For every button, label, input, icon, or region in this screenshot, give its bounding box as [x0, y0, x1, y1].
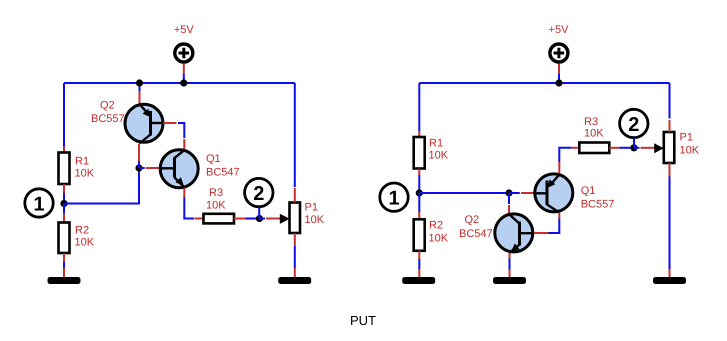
svg-text:10K: 10K	[584, 128, 604, 140]
wire node 1 to Q-junction	[64, 168, 139, 204]
svg-text:BC557: BC557	[581, 199, 615, 211]
value label P1 10K (right)	[680, 132, 700, 157]
wire rail down to P1 top	[294, 83, 296, 203]
power +5V symbol (right)	[549, 24, 570, 62]
svg-text:P1: P1	[680, 132, 693, 144]
svg-text:10K: 10K	[680, 145, 700, 157]
wire P1 bottom to ground	[294, 233, 296, 277]
label Q1 BC557 (right)	[581, 185, 615, 211]
value label P1 10K (left)	[305, 202, 325, 227]
value label R1 10K (left)	[75, 156, 95, 180]
label Q1 BC547 (left)	[206, 153, 240, 179]
svg-text:R1: R1	[75, 156, 89, 168]
svg-text:R3: R3	[584, 116, 598, 128]
svg-text:R2: R2	[75, 225, 89, 237]
svg-text:R3: R3	[209, 187, 223, 199]
wire left column from rail to R1	[63, 83, 65, 153]
wire node 1 to mid junction	[419, 192, 509, 194]
wire junction up to Q2 collector	[138, 144, 140, 168]
wire +5V to rail	[183, 64, 185, 84]
svg-text:10K: 10K	[429, 233, 449, 245]
wire R3 to node 2 junction (right)	[609, 147, 634, 149]
node 1 terminal circle (left)	[25, 189, 53, 217]
junction dot Q2 collector / Q1 base	[135, 164, 142, 171]
wire left column rail to R1 (right)	[418, 83, 420, 137]
wire R2 to ground (right)	[418, 251, 420, 277]
svg-text:1: 1	[388, 188, 399, 210]
value label R1 10K (right)	[429, 138, 449, 162]
transistor Q1 BC557 (right, PNP)	[535, 174, 573, 213]
wire node 1 to R2 (right)	[418, 193, 420, 219]
junction dot node 2 (right)	[630, 144, 637, 151]
svg-text:P1: P1	[305, 202, 318, 214]
wire node 2 circle to junction (right)	[633, 138, 635, 148]
junction dot on rail under +5V (right)	[555, 79, 562, 86]
wire +5V to rail (right)	[558, 64, 560, 84]
value label R3 10K (right)	[584, 116, 604, 140]
wire junction to Q1 base	[139, 167, 145, 169]
node 2 terminal circle (left)	[245, 178, 273, 206]
wire node 2 circle to junction	[258, 207, 260, 219]
transistor Q2 BC557 (left, PNP)	[125, 104, 165, 144]
wire junction to P1 wiper	[260, 218, 266, 220]
resistor R1 (right)	[414, 137, 425, 169]
transistor Q1 BC547 (left, NPN)	[160, 150, 198, 188]
junction dot node 1 (left)	[60, 200, 67, 207]
wire mid junction down to Q2 collector (right)	[508, 193, 510, 214]
resistor R3 (right)	[579, 143, 609, 154]
wire top rail right circuit	[419, 82, 669, 84]
ground under R2 (right)	[402, 277, 435, 284]
svg-text:Q1: Q1	[206, 153, 221, 165]
svg-text:10K: 10K	[305, 214, 325, 226]
svg-text:2: 2	[628, 114, 639, 136]
wire node 1 to R2	[63, 204, 65, 223]
transistor Q2 BC547 (right, NPN)	[495, 214, 533, 253]
wire rail down to P1 top (right)	[669, 83, 671, 132]
svg-text:BC547: BC547	[459, 228, 493, 240]
svg-text:Q1: Q1	[581, 185, 596, 197]
svg-text:Q2: Q2	[465, 214, 480, 226]
wire Q1 emitter up to R3 (right)	[559, 148, 579, 174]
svg-text:R2: R2	[429, 220, 443, 232]
svg-text:R1: R1	[429, 138, 443, 150]
svg-text:BC557: BC557	[91, 113, 125, 125]
node 1 terminal circle (right)	[380, 183, 408, 211]
wire junction to P1 wiper (right)	[634, 147, 640, 149]
potentiometer P1 wiper arrow (left)	[280, 214, 290, 224]
wire R3 to node 2 junction	[234, 218, 260, 220]
svg-text:10K: 10K	[429, 150, 449, 162]
wire Q1 collector to Q2 base (right)	[534, 213, 559, 233]
svg-text:+5V: +5V	[549, 24, 570, 36]
junction dot mid (right)	[505, 189, 512, 196]
svg-text:BC547: BC547	[206, 167, 240, 179]
svg-text:2: 2	[253, 183, 264, 205]
potentiometer P1 wiper arrow (right)	[654, 143, 664, 153]
junction dot on rail under +5V (left)	[180, 79, 187, 86]
node 2 terminal circle (right)	[620, 109, 648, 137]
wire Q2 emitter to ground (right)	[509, 253, 511, 277]
value label R2 10K (right)	[429, 220, 449, 245]
potentiometer P1 body (right)	[664, 132, 675, 163]
resistor R1 (left)	[59, 153, 70, 185]
potentiometer P1 body (left)	[290, 203, 301, 234]
resistor R3 (left)	[204, 214, 235, 224]
wire top rail left circuit	[64, 82, 295, 84]
wire P1 bottom to ground (right)	[669, 163, 671, 277]
wire rail to Q2 emitter	[139, 83, 141, 105]
svg-text:1: 1	[33, 193, 44, 215]
wire R2 to ground	[63, 253, 65, 277]
wire R1 bottom to node 1	[63, 184, 65, 204]
svg-text:Q2: Q2	[100, 100, 115, 112]
label Q2 BC557 (left)	[91, 100, 125, 126]
ground under P1 (right)	[653, 277, 686, 284]
svg-text:+5V: +5V	[174, 24, 195, 36]
wire Q1 emitter to R3	[184, 188, 203, 219]
resistor R2 (left)	[59, 223, 70, 254]
ground under Q2 (right)	[493, 277, 526, 284]
power +5V symbol (left)	[174, 24, 195, 62]
wire Q2 base to Q1 collector	[163, 123, 184, 150]
junction dot node 2 (left)	[256, 215, 263, 222]
junction dot node 1 (right)	[416, 189, 423, 196]
svg-text:10K: 10K	[206, 200, 226, 212]
wire R1 to node 1 (right)	[418, 169, 420, 194]
value label R3 10K (left)	[206, 187, 226, 212]
junction dot on rail at Q2 emitter	[136, 79, 143, 86]
resistor R2 (right)	[414, 219, 425, 251]
svg-text:10K: 10K	[75, 237, 95, 249]
value label R2 10K (left)	[75, 225, 95, 249]
label Q2 BC547 (right)	[459, 214, 493, 240]
svg-text:10K: 10K	[75, 168, 95, 180]
wire mid junction to Q1 base (right)	[509, 192, 520, 194]
ground under R2 (left)	[48, 277, 81, 284]
svg-text:PUT: PUT	[350, 313, 376, 328]
ground under P1 (left)	[278, 277, 311, 284]
